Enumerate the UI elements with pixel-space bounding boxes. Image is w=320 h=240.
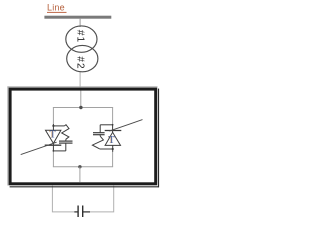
triangle	[46, 130, 61, 143]
enclosure box	[7, 86, 159, 187]
snubber return	[100, 124, 112, 126]
anode pin	[112, 146, 114, 152]
snubber feed	[53, 125, 64, 127]
anode pin	[52, 124, 54, 130]
transformer T1 winding #2	[67, 45, 98, 71]
svg-text:Line: Line	[47, 3, 65, 13]
wire box exit stub	[79, 167, 81, 182]
transformer T1 winding #1	[66, 26, 97, 52]
svg-text:#2: #2	[74, 56, 85, 69]
wire top rail	[53, 107, 113, 109]
triangle	[105, 132, 120, 145]
snubber resistor	[62, 125, 69, 140]
snubber feed	[100, 148, 113, 150]
junction right return	[112, 124, 114, 126]
wire into box	[80, 91, 82, 108]
junction left return	[53, 150, 55, 152]
wire bus to transformer	[79, 19, 81, 27]
node Line label	[47, 3, 67, 13]
gate	[21, 142, 57, 154]
cathode bar	[45, 144, 62, 146]
snubber capacitor	[65, 139, 67, 141]
wire left branch lower	[52, 151, 54, 167]
cathode pin	[112, 125, 114, 133]
wire right branch upper	[112, 108, 114, 125]
cathode bar	[105, 130, 122, 132]
wire bottom left drop	[52, 186, 74, 212]
snubber capacitor	[99, 135, 101, 137]
thyristor T right	[92, 120, 142, 152]
bus Line	[44, 16, 111, 19]
gate	[109, 120, 142, 132]
capacitor C1	[74, 206, 90, 218]
wire bottom rail	[53, 166, 113, 168]
wire transformer to box	[79, 72, 81, 88]
cathode pin	[52, 143, 54, 151]
svg-text:#1: #1	[74, 30, 85, 43]
wire bottom right drop	[90, 186, 114, 212]
snubber resistor	[92, 136, 103, 149]
wire right branch lower	[112, 151, 114, 167]
snubber return	[53, 150, 65, 152]
wire left branch upper	[52, 108, 54, 125]
thyristor T left	[21, 124, 73, 155]
svg-text:T: T	[109, 135, 115, 146]
junction left feed	[52, 125, 54, 127]
svg-text:T: T	[50, 129, 56, 140]
junction right feed	[112, 148, 114, 150]
junction top	[79, 106, 82, 109]
junction bottom	[78, 165, 81, 168]
